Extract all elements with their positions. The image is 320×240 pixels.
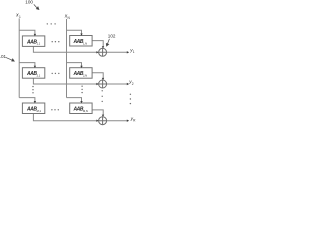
svg-text:1: 1 xyxy=(19,15,21,19)
svg-text:2,1: 2,1 xyxy=(37,74,41,78)
svg-text:2: 2 xyxy=(132,82,134,86)
svg-text:2,N: 2,N xyxy=(83,74,87,78)
svg-text:1,N: 1,N xyxy=(83,42,87,46)
svg-text:100: 100 xyxy=(25,0,33,5)
svg-text:M,N: M,N xyxy=(83,109,88,113)
svg-text:1,1: 1,1 xyxy=(37,42,41,46)
svg-text:102: 102 xyxy=(108,34,116,39)
svg-text:1: 1 xyxy=(133,50,135,54)
svg-text:101: 101 xyxy=(0,54,7,59)
svg-text:M,1: M,1 xyxy=(37,109,42,113)
